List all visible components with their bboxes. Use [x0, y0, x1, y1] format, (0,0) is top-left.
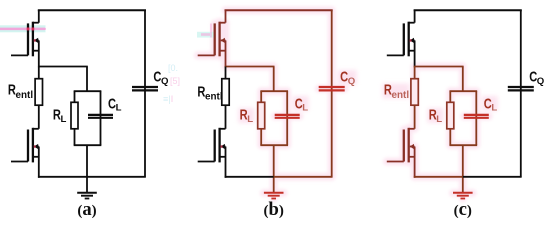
wire: load feed: [462, 67, 464, 92]
wire: M1 drain to rail: [225, 10, 227, 23]
label CQ: [529, 68, 545, 87]
wire: load loop top: [260, 90, 288, 92]
ground: [264, 193, 284, 199]
wire: bottom rail left: [225, 176, 274, 178]
wire: left branch lower: [449, 129, 451, 145]
wire: M1 source/body tie down to junction: [38, 40, 40, 67]
glow under red ink, panel (b): [198, 10, 345, 198]
wire: Rentl down to M2 drain: [414, 105, 416, 129]
svg-text:L: L: [61, 114, 67, 125]
wire: M1 drain to rail: [38, 10, 40, 23]
ground: [77, 193, 97, 199]
svg-text:Q: Q: [161, 76, 169, 87]
svg-text:l: l: [171, 94, 173, 104]
wire: bottom rail right: [463, 176, 522, 178]
wire: left branch upper: [74, 91, 76, 102]
label RL: [53, 106, 67, 125]
wire: junction down to Rentl: [38, 67, 40, 79]
wire: left branch lower: [260, 129, 262, 145]
wire: right branch upper: [475, 91, 477, 145]
wire: load loop top: [74, 90, 102, 92]
wire: right branch upper: [286, 91, 288, 145]
wire: M2 source/body tie down to bottom rail: [225, 147, 227, 178]
wire: top rail: [225, 9, 333, 11]
wire: bottom rail right: [274, 176, 333, 178]
wire: left branch upper: [449, 91, 451, 102]
node: junction to load wire: [225, 66, 275, 68]
label CL: [484, 95, 498, 114]
resistor Rentl: [35, 79, 42, 106]
label RL: [240, 106, 254, 125]
svg-text:L: L: [116, 103, 122, 114]
capacitor CL: [88, 115, 113, 118]
ghost artifact: smudge panel (b) gate: [197, 32, 215, 38]
label CQ: [153, 68, 169, 87]
wire: bottom rail left: [38, 176, 87, 178]
wire: CQ branch upper: [331, 10, 333, 177]
resistor RL: [258, 102, 265, 129]
node: junction to load wire: [414, 66, 464, 68]
wire: top rail: [38, 9, 146, 11]
svg-text:(a): (a): [77, 199, 96, 220]
wire: left branch upper: [260, 91, 262, 102]
wire: right branch upper: [100, 91, 102, 145]
label CL: [108, 95, 122, 114]
node: junction to load wire: [38, 66, 88, 68]
transistor M2 (bottom): [11, 128, 39, 163]
wire: M1 source/body tie down to junction: [414, 40, 416, 67]
capacitor CL: [464, 115, 489, 118]
wire: load loop top: [449, 90, 477, 92]
transistor M2 (bottom): [387, 128, 415, 163]
svg-text:(c): (c): [454, 199, 472, 220]
svg-text:L: L: [302, 103, 308, 114]
wire: M1 drain to rail: [414, 10, 416, 23]
capacitor CQ: [508, 87, 534, 90]
svg-text:L: L: [247, 114, 253, 125]
wire: bottom rail left: [414, 176, 463, 178]
glow under red ink, panel (c): [387, 67, 489, 199]
svg-text:entl: entl: [205, 92, 223, 103]
label Rentl: [197, 83, 222, 103]
resistor RL: [447, 102, 454, 129]
wire: Rentl down to M2 drain: [225, 105, 227, 129]
wire: load loop bottom: [260, 144, 288, 146]
resistor Rentl: [411, 79, 418, 106]
capacitor CQ: [319, 87, 345, 90]
wire: ground stem: [86, 145, 88, 193]
wire: M2 source/body tie down to bottom rail: [38, 147, 40, 178]
wire: load loop bottom: [449, 144, 477, 146]
ground: [453, 193, 473, 199]
wire: Rentl down to M2 drain: [38, 105, 40, 129]
resistor Rentl: [222, 79, 229, 106]
resistor RL: [71, 102, 78, 129]
svg-text:(b): (b): [264, 199, 284, 220]
wire: load feed: [86, 67, 88, 92]
transistor M1 (top): [11, 22, 39, 57]
wire: top rail: [414, 9, 522, 11]
label Rentl: [384, 81, 409, 101]
ghost glyphs between panels: [163, 63, 180, 104]
svg-text:L: L: [436, 114, 442, 125]
label CQ: [340, 68, 356, 87]
ghost artifact: pink gate line over panel (a): [0, 28, 45, 31]
svg-text:Q: Q: [348, 76, 356, 87]
wire: CQ branch upper: [520, 10, 522, 177]
wire: left branch lower: [74, 129, 76, 145]
ghost artifact: pink gate line panel (a): [0, 25, 46, 32]
transistor M1 (top): [198, 22, 226, 57]
wire: load loop bottom: [74, 144, 102, 146]
capacitor CQ: [132, 87, 158, 90]
svg-text:entl: entl: [392, 90, 410, 101]
wire: CQ branch upper: [144, 10, 146, 177]
label RL: [429, 106, 443, 125]
transistor M2 (bottom): [198, 128, 226, 163]
svg-text:≡|: ≡|: [163, 94, 171, 104]
wire: junction down to Rentl: [225, 67, 227, 79]
wire: M1 source/body tie down to junction: [225, 40, 227, 67]
svg-text:[0.: [0.: [168, 63, 178, 73]
wire: junction down to Rentl: [414, 67, 416, 79]
wire: ground stem: [273, 145, 275, 193]
wire: M2 source/body tie down to bottom rail: [414, 147, 416, 178]
wire: ground stem: [462, 145, 464, 193]
label CL: [295, 95, 309, 114]
svg-text:[5]: [5]: [170, 76, 180, 86]
transistor M1 (top): [387, 22, 415, 57]
svg-text:entl: entl: [16, 90, 34, 101]
label Rentl: [8, 81, 33, 101]
svg-text:Q: Q: [537, 76, 545, 87]
capacitor CL: [275, 115, 300, 118]
wire: load feed: [273, 67, 275, 92]
svg-text:L: L: [491, 103, 497, 114]
wire: bottom rail right: [87, 176, 146, 178]
glow under red labels: [338, 70, 357, 85]
